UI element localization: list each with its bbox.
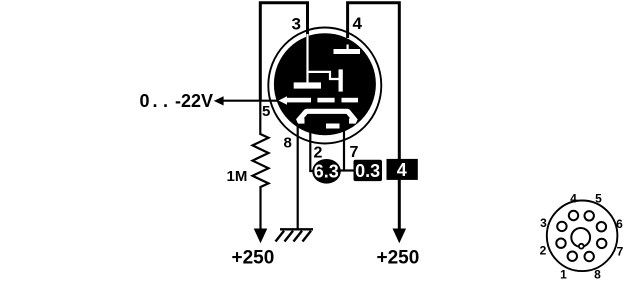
anode bar (pin 3) — [294, 82, 321, 88]
svg-text:3: 3 — [292, 15, 301, 34]
label: 0...-22V — [140, 91, 214, 111]
anode lead (pin 3) internal white wire — [308, 34, 339, 83]
grid G1 (pin 5) dashed with entry arrow — [279, 96, 359, 105]
resistor R1 — [253, 101, 269, 229]
socket outline — [547, 201, 618, 272]
arrow: right +250 supply — [393, 229, 407, 244]
svg-text:2: 2 — [314, 145, 323, 162]
arrow: grid bias output (points left) — [214, 96, 224, 105]
socket key notch — [579, 244, 584, 249]
svg-text:4: 4 — [570, 192, 577, 206]
svg-text:6.3: 6.3 — [314, 162, 339, 182]
wire: heater pin 2 — [310, 130, 315, 171]
socket pin hole 1 — [568, 252, 577, 261]
wire: anode pin3 loop to grid-resistor junction — [260, 3, 307, 101]
socket pin hole 4 — [569, 211, 578, 220]
cathode K — [298, 111, 356, 121]
arrow: left +250 supply — [254, 229, 268, 244]
svg-text:-22V: -22V — [175, 91, 213, 111]
heater voltage label 6.3 — [312, 159, 341, 184]
svg-text:5: 5 — [262, 103, 270, 120]
socket pin hole 2 — [556, 239, 565, 248]
ground — [276, 229, 314, 241]
svg-text:0: 0 — [140, 91, 150, 111]
svg-text:3: 3 — [540, 216, 547, 230]
svg-text:7: 7 — [617, 245, 624, 259]
svg-text:1M: 1M — [227, 168, 248, 185]
svg-text:6: 6 — [616, 217, 623, 231]
anode current label 4 — [387, 159, 418, 180]
svg-text:2: 2 — [540, 244, 547, 258]
tube U1 body (black disc) — [274, 33, 376, 135]
svg-text:1: 1 — [560, 267, 567, 281]
socket base diagram — [540, 192, 624, 282]
wire: cathode pin 8 to ground — [297, 124, 299, 229]
socket pin hole 5 — [585, 211, 594, 220]
heater bar — [326, 124, 340, 129]
svg-text:+250: +250 — [232, 248, 275, 269]
wire: pin4 anode supply down to +250 — [348, 3, 400, 229]
anode bar (pin 4) — [334, 45, 361, 55]
svg-text:8: 8 — [284, 135, 292, 152]
socket pin hole 3 — [557, 222, 566, 231]
svg-text:0.3: 0.3 — [355, 161, 380, 181]
socket pin hole 8 — [585, 252, 594, 261]
svg-text:5: 5 — [595, 192, 602, 206]
svg-text:4: 4 — [397, 160, 407, 180]
svg-text:.: . — [153, 91, 158, 111]
tube U1 envelope — [268, 28, 381, 144]
heater current label 0.3 — [354, 160, 383, 181]
svg-text:8: 8 — [594, 267, 601, 281]
socket pin hole 6 — [597, 222, 606, 231]
svg-text:.: . — [163, 91, 168, 111]
svg-text:4: 4 — [353, 14, 363, 33]
wire: heater pin 7 — [343, 129, 345, 171]
socket pin hole 7 — [597, 239, 606, 248]
wire: heater link 6.3 to 0.3 — [339, 169, 355, 171]
svg-text:7: 7 — [350, 144, 359, 161]
svg-text:+250: +250 — [377, 248, 420, 269]
socket center spigot — [571, 228, 590, 247]
deflector/target vertical bar — [339, 69, 343, 91]
wire: grid input line — [222, 100, 278, 102]
